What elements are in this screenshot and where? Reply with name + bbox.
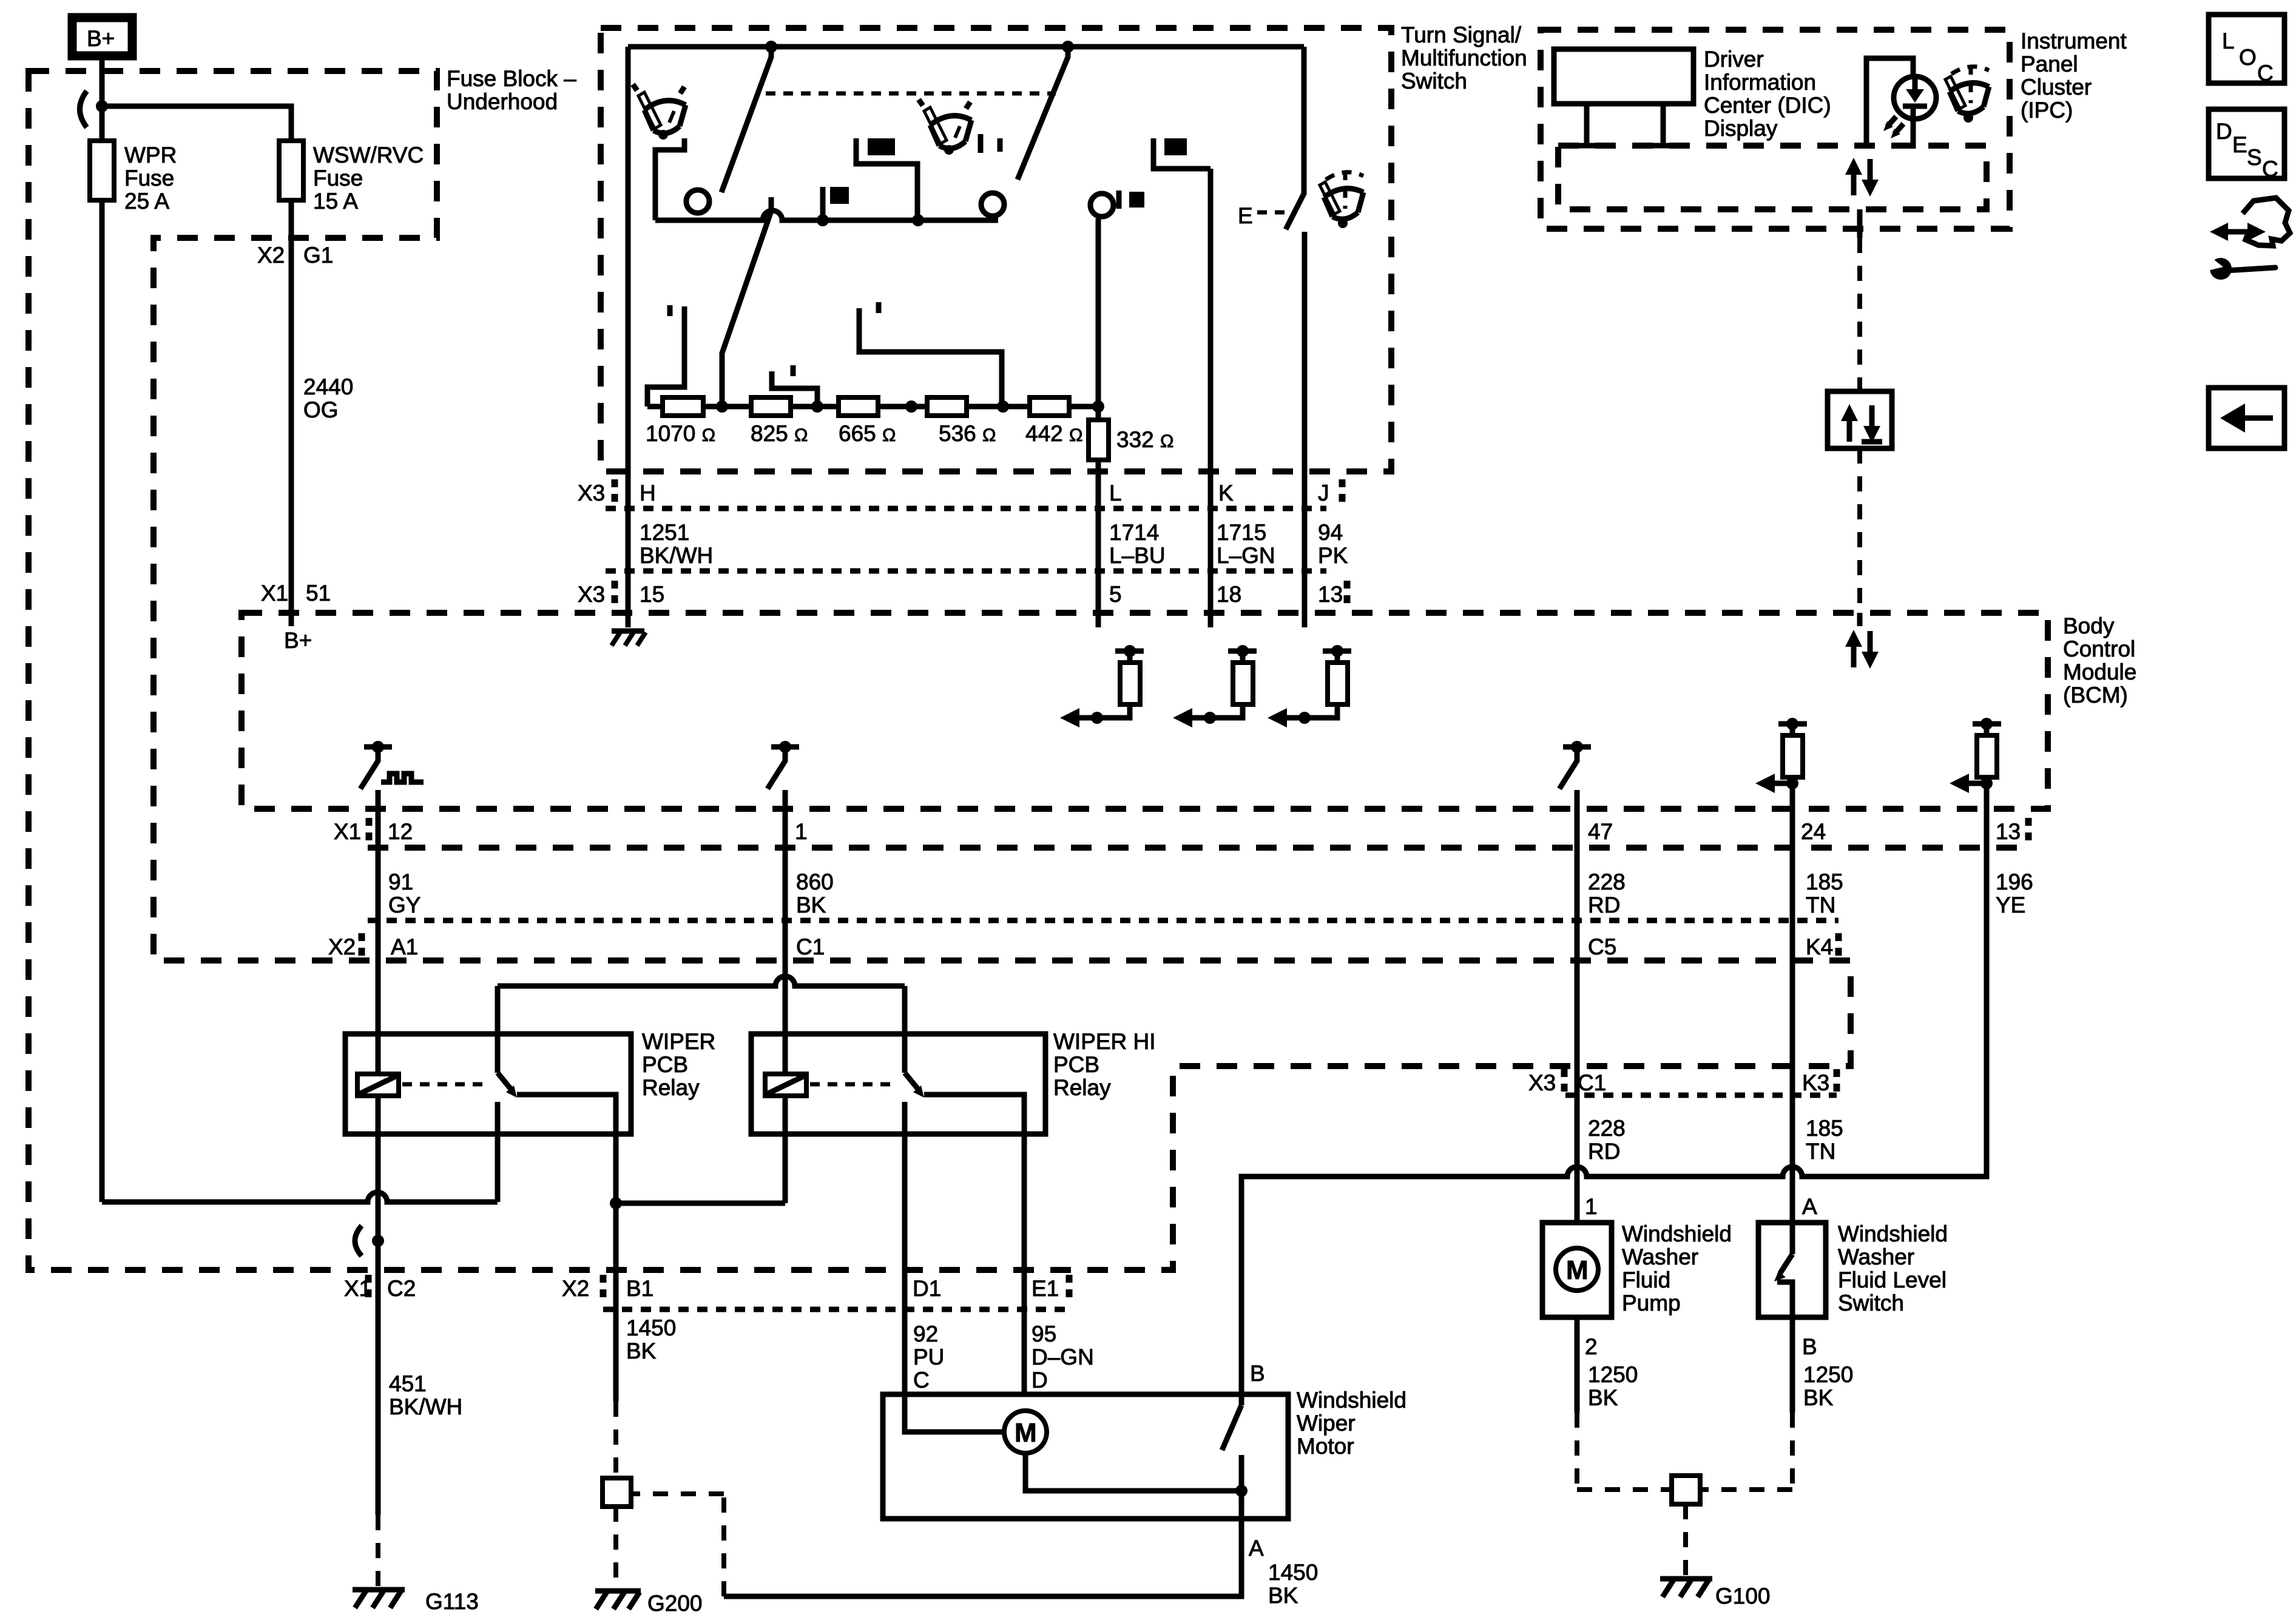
resistor 1070 ohm — [646, 397, 715, 446]
harness small dash line 2 — [606, 569, 1326, 574]
connector X1 pin number row of BCM — [334, 818, 2028, 846]
svg-text:M: M — [1015, 1418, 1037, 1448]
input pullup L pin 5 — [1060, 645, 1144, 727]
svg-text:Windshield: Windshield — [1838, 1221, 1948, 1246]
svg-text:Underhood: Underhood — [447, 89, 558, 114]
wire off position L lead — [655, 138, 684, 220]
input pullup pin 24 inline — [1755, 718, 1807, 793]
svg-text:J: J — [1318, 481, 1329, 505]
wire top feed rail of switch — [628, 44, 1304, 50]
wire label 196 YE — [1996, 869, 2033, 917]
svg-text:BK: BK — [1588, 1385, 1618, 1410]
svg-text:WIPER HI: WIPER HI — [1053, 1029, 1156, 1054]
svg-text:Multifunction: Multifunction — [1401, 46, 1527, 70]
wire wiper relay output to HI relay common — [498, 976, 905, 986]
svg-text:Body: Body — [2063, 613, 2115, 638]
svg-text:12: 12 — [388, 819, 413, 844]
wiper pcb relay label — [642, 1029, 715, 1100]
svg-text:Pump: Pump — [1622, 1291, 1681, 1315]
wire label 2440 OG — [303, 374, 353, 422]
wire label 95 D-GN D — [1032, 1322, 1094, 1393]
node chain junction dots — [716, 400, 1104, 413]
svg-text:G200: G200 — [647, 1591, 703, 1616]
svg-text:196: 196 — [1996, 869, 2033, 894]
svg-text:E: E — [2232, 132, 2247, 157]
svg-text:RD: RD — [1588, 893, 1620, 917]
svg-text:BK: BK — [1803, 1385, 1834, 1410]
svg-text:Relay: Relay — [642, 1075, 700, 1100]
svg-text:S: S — [2247, 145, 2262, 170]
svg-text:1: 1 — [795, 819, 808, 844]
windshield washer fluid level switch box — [1758, 1223, 1826, 1317]
svg-text:Windshield: Windshield — [1622, 1221, 1732, 1246]
svg-text:H: H — [640, 481, 656, 505]
svg-text:2: 2 — [1585, 1334, 1598, 1359]
svg-text:Relay: Relay — [1053, 1075, 1111, 1100]
wire B+ feed down to WPR fuse — [100, 60, 105, 1202]
resistor 665 ohm — [839, 397, 896, 446]
svg-text:BK: BK — [626, 1338, 657, 1363]
wire K output down — [1208, 169, 1214, 627]
contact tick chain left — [667, 305, 673, 316]
connector X3 pin number row — [578, 581, 1347, 609]
wire serial data IPC to BCM — [1857, 209, 1863, 613]
svg-text:1250: 1250 — [1803, 1362, 1853, 1387]
svg-text:K4: K4 — [1806, 934, 1833, 959]
svg-text:Turn Signal/: Turn Signal/ — [1401, 22, 1522, 47]
motor armature M — [1004, 1411, 1047, 1453]
margin icon back arrow box — [2209, 388, 2284, 448]
contact tick mid2 — [876, 302, 882, 313]
connector pins D1 E1 — [913, 1275, 1069, 1303]
input pullup J pin 13 — [1268, 645, 1351, 727]
wire low speed rail deck2 — [655, 211, 998, 220]
wire 860 BK from pin 1 down through HI relay coil — [783, 790, 788, 1203]
svg-text:X2: X2 — [328, 934, 356, 959]
svg-text:L: L — [1109, 481, 1122, 505]
svg-text:(BCM): (BCM) — [2063, 683, 2128, 707]
svg-text:Fluid Level: Fluid Level — [1838, 1268, 1947, 1292]
svg-text:B: B — [1802, 1334, 1817, 1359]
contact tick deck2 left — [978, 134, 984, 153]
wire label 92 PU C — [913, 1322, 944, 1393]
wire chain left end contact — [647, 306, 684, 407]
svg-text:332 Ω: 332 Ω — [1116, 427, 1173, 452]
DIC display rectangle — [1554, 49, 1693, 104]
windshield washer fluid pump box — [1542, 1223, 1612, 1317]
resistor chain rail — [647, 404, 1098, 410]
harness dashed line below BCM pin row — [368, 845, 2027, 851]
mechanical link dashed wiper relay — [402, 1082, 485, 1087]
svg-text:2440: 2440 — [303, 374, 353, 399]
node low rail junction 1 — [817, 214, 829, 226]
wire level switch to splice — [1700, 1317, 1792, 1490]
instrument panel cluster dashed box — [1541, 30, 2010, 229]
svg-text:C: C — [2257, 61, 2274, 86]
svg-text:15 A: 15 A — [313, 189, 358, 214]
margin icon arrows and wrench — [2203, 198, 2290, 280]
svg-text:Fuse: Fuse — [124, 166, 174, 191]
driver output pin 1 symbol — [768, 741, 799, 789]
wire label 1450 BK at motor — [1268, 1560, 1318, 1608]
svg-text:Driver: Driver — [1704, 47, 1764, 72]
svg-text:K3: K3 — [1802, 1070, 1829, 1095]
switch washer output — [1302, 232, 1308, 627]
svg-text:Washer: Washer — [1838, 1244, 1914, 1269]
serial data symbol box — [1828, 391, 1892, 448]
svg-text:1070 Ω: 1070 Ω — [646, 421, 715, 446]
wire 92 PU inside motor — [905, 1394, 1005, 1432]
svg-text:Information: Information — [1704, 70, 1816, 95]
park switch in motor — [1222, 1394, 1241, 1491]
mechanical link dashed hi relay — [810, 1082, 893, 1087]
svg-text:1450: 1450 — [626, 1315, 676, 1340]
svg-text:C5: C5 — [1588, 934, 1616, 959]
connector X2 pin row A1 C1 C5 K4 — [328, 933, 1838, 961]
wire 91 GY from pin 12 down through relay coil — [376, 790, 381, 1515]
svg-text:51: 51 — [306, 581, 331, 606]
svg-text:15: 15 — [640, 582, 664, 607]
fuse block underhood dashed outline — [29, 71, 1851, 1270]
wire DIC legs — [1576, 104, 1674, 147]
svg-text:D: D — [1032, 1368, 1048, 1393]
wire pump to splice — [1577, 1317, 1672, 1490]
svg-text:Control: Control — [2063, 636, 2135, 661]
IPC serial data arrows — [1845, 158, 1879, 197]
wire motor to park junction — [1025, 1453, 1241, 1491]
wire contact lead to junction 536-442 — [859, 308, 1002, 407]
windshield wiper motor box — [883, 1394, 1288, 1519]
svg-text:Panel: Panel — [2021, 52, 2078, 76]
contact square deck2 low — [823, 187, 849, 220]
svg-text:X2: X2 — [257, 243, 285, 268]
svg-text:Display: Display — [1704, 116, 1778, 141]
icon wiper symbol 2 — [919, 100, 971, 155]
svg-text:TN: TN — [1806, 1139, 1835, 1164]
svg-text:B: B — [1250, 1361, 1265, 1386]
svg-text:G100: G100 — [1715, 1584, 1771, 1609]
node rail junction B — [1062, 41, 1074, 53]
wire 451 dashed to ground G113 — [376, 1515, 380, 1587]
wire label 228 RD upper — [1588, 869, 1626, 917]
svg-text:665 Ω: 665 Ω — [839, 421, 896, 446]
resistor 536 ohm — [927, 397, 996, 446]
wire J washer feed with switch — [1286, 47, 1304, 229]
mechanical link dashed E to washer blade — [1257, 211, 1294, 215]
input pullup K pin 18 — [1173, 645, 1257, 727]
svg-text:C: C — [913, 1368, 930, 1393]
wire motor ground 1450 BK — [724, 1491, 1241, 1596]
svg-text:92: 92 — [913, 1322, 938, 1346]
wire junction to HI coil return — [616, 1201, 785, 1206]
node wiper relay output junction — [610, 1197, 622, 1209]
svg-text:X3: X3 — [578, 582, 605, 607]
wiper hi pcb relay box — [751, 1034, 1045, 1134]
svg-text:X2: X2 — [562, 1276, 589, 1301]
fuse block underhood label — [447, 66, 576, 114]
svg-text:D: D — [2216, 119, 2232, 144]
turn signal multifunction switch label — [1401, 22, 1527, 93]
svg-text:47: 47 — [1588, 819, 1613, 844]
node B+ junction — [96, 100, 108, 112]
svg-text:13: 13 — [1318, 582, 1343, 607]
svg-text:D–GN: D–GN — [1032, 1345, 1094, 1369]
svg-text:Module: Module — [2063, 660, 2136, 684]
wiper hi pcb relay label — [1053, 1029, 1156, 1100]
BCM serial data stub and arrows — [1845, 613, 1879, 669]
washer pump motor M — [1556, 1248, 1598, 1291]
ground G200 — [595, 1591, 703, 1616]
svg-text:L–GN: L–GN — [1217, 543, 1275, 568]
mechanical link dashed deck1-deck3 — [766, 92, 1056, 96]
contact circle deck1 off — [686, 190, 709, 213]
svg-text:442 Ω: 442 Ω — [1025, 421, 1082, 446]
svg-text:13: 13 — [1996, 819, 2021, 844]
splice clip arc at B+ junction — [80, 91, 87, 127]
wire label 1250 BK pump — [1588, 1362, 1638, 1410]
wire contact lead to junction 825-665 — [772, 371, 817, 407]
wire H wiper park feed down to ground — [626, 47, 631, 627]
svg-text:1: 1 — [1585, 1194, 1598, 1219]
svg-text:Fluid: Fluid — [1622, 1268, 1670, 1292]
svg-text:A: A — [1802, 1194, 1817, 1219]
svg-text:451: 451 — [389, 1371, 427, 1396]
fuse WPR 25A — [90, 141, 177, 214]
wire label 228 RD lower — [1588, 1116, 1626, 1164]
relay coil wiper hi — [765, 1074, 806, 1096]
svg-text:95: 95 — [1032, 1322, 1056, 1346]
svg-text:WSW/RVC: WSW/RVC — [313, 143, 424, 167]
svg-text:1250: 1250 — [1588, 1362, 1638, 1387]
svg-text:OG: OG — [303, 397, 339, 422]
svg-text:C: C — [2262, 157, 2278, 181]
wire splice to ground G100 — [1683, 1504, 1688, 1576]
svg-text:Switch: Switch — [1838, 1291, 1904, 1315]
svg-text:WPR: WPR — [124, 143, 177, 167]
svg-text:L: L — [2222, 29, 2235, 53]
svg-text:PCB: PCB — [1053, 1052, 1099, 1077]
turn signal multifunction switch dashed box — [601, 28, 1391, 471]
margin icon DESC box — [2209, 109, 2284, 181]
IPC internal serial dashed box — [1558, 146, 1987, 209]
node rail junction A — [765, 41, 777, 53]
body control module dashed box — [241, 613, 2048, 809]
svg-text:X3: X3 — [578, 481, 605, 505]
svg-text:RD: RD — [1588, 1139, 1620, 1164]
svg-text:Wiper: Wiper — [1297, 1411, 1356, 1436]
contact square delay feed — [856, 138, 917, 220]
svg-text:WIPER: WIPER — [642, 1029, 715, 1054]
telltale LED indicator — [1883, 76, 1936, 149]
windshield washer fluid pump label — [1622, 1221, 1732, 1315]
svg-text:Fuse Block –: Fuse Block – — [447, 66, 576, 91]
connector X1 pin C2 row — [344, 1275, 416, 1303]
svg-text:5: 5 — [1109, 582, 1122, 607]
svg-text:185: 185 — [1806, 1116, 1843, 1141]
body control module label — [2063, 613, 2136, 707]
wire label 91 GY — [388, 869, 420, 917]
svg-text:B+: B+ — [284, 628, 312, 653]
connector X2 pin B1 — [562, 1275, 653, 1303]
svg-text:C1: C1 — [1578, 1070, 1606, 1095]
svg-text:Windshield: Windshield — [1297, 1388, 1406, 1413]
svg-text:X1: X1 — [334, 819, 361, 844]
svg-text:E: E — [1238, 203, 1253, 228]
svg-text:X3: X3 — [1528, 1070, 1556, 1095]
icon wiper symbol 1 — [633, 84, 686, 140]
svg-text:C2: C2 — [387, 1276, 416, 1301]
svg-text:BK/WH: BK/WH — [640, 543, 713, 568]
svg-text:94: 94 — [1318, 520, 1343, 545]
svg-text:BK/WH: BK/WH — [389, 1394, 462, 1419]
svg-text:PCB: PCB — [642, 1052, 688, 1077]
svg-text:(IPC): (IPC) — [2021, 98, 2073, 123]
harness small dash line 3 — [368, 918, 1838, 923]
svg-text:A1: A1 — [391, 934, 418, 959]
relay switch wiper hi — [905, 986, 1024, 1394]
svg-text:Washer: Washer — [1622, 1244, 1698, 1269]
switch blade deck1 on/off — [721, 47, 771, 192]
relay switch wiper — [498, 986, 616, 1203]
driver output pin 12 symbol — [360, 741, 424, 789]
contact circle deck3 right L — [1090, 194, 1113, 217]
splice with clip on 91 GY wire — [355, 1226, 384, 1256]
connector X1 pin 51 of BCM — [261, 581, 331, 606]
input pullup pin 13 inline — [1950, 718, 2001, 793]
svg-text:Motor: Motor — [1297, 1434, 1354, 1459]
contact tick deck3 — [998, 138, 1003, 152]
svg-text:G113: G113 — [425, 1589, 479, 1614]
svg-text:K: K — [1218, 481, 1234, 505]
svg-text:825 Ω: 825 Ω — [751, 421, 808, 446]
svg-text:Center (DIC): Center (DIC) — [1704, 93, 1831, 118]
harness small dash line 1 — [606, 506, 1326, 511]
windshield wiper motor label — [1297, 1388, 1406, 1459]
svg-text:1715: 1715 — [1217, 520, 1266, 545]
svg-text:O: O — [2239, 45, 2257, 70]
switch blade deck3 speed select — [1018, 47, 1068, 180]
wire L output from low rail through resistors — [1096, 218, 1101, 627]
wire label 1714 L-BU — [1109, 520, 1166, 568]
svg-text:D1: D1 — [913, 1276, 941, 1301]
windshield washer fluid level switch label — [1838, 1221, 1948, 1315]
relay coil wiper — [357, 1074, 399, 1096]
svg-text:PU: PU — [913, 1345, 944, 1369]
telltale LED feed wires — [1866, 58, 1913, 149]
svg-text:18: 18 — [1217, 582, 1241, 607]
level switch contacts — [1774, 1221, 1792, 1317]
svg-text:B1: B1 — [626, 1276, 653, 1301]
svg-text:Switch: Switch — [1401, 69, 1467, 93]
wire label 185 TN upper — [1806, 869, 1843, 917]
resistor 332 ohm — [1089, 420, 1173, 460]
svg-text:BK: BK — [1268, 1583, 1298, 1608]
svg-text:185: 185 — [1806, 869, 1843, 894]
wire splice to ground G200 — [613, 1507, 618, 1590]
wire label 860 BK — [796, 869, 834, 917]
svg-text:1714: 1714 — [1109, 520, 1159, 545]
harness small dash line 5 — [603, 1307, 1071, 1312]
switch blade deck2 intermittent — [722, 197, 771, 407]
svg-text:A: A — [1249, 1536, 1264, 1561]
icon washer symbol in IPC — [1945, 65, 1989, 123]
splice block S100 — [1672, 1476, 1700, 1504]
wire 185 TN from pin 24 down to level switch — [1790, 783, 1795, 1221]
contact square mist with tick — [1119, 191, 1144, 209]
harness small dash line 4 — [1565, 1093, 1837, 1098]
svg-text:G1: G1 — [303, 243, 333, 268]
wire label 1250 BK level switch — [1803, 1362, 1853, 1410]
wire junction down to ground splice — [613, 1203, 619, 1402]
wire label 1251 BK/WH — [640, 520, 713, 568]
resistor 442 ohm — [1025, 397, 1082, 446]
svg-text:1251: 1251 — [640, 520, 689, 545]
driver output pin 47 symbol — [1559, 741, 1591, 789]
margin icon LOC box — [2209, 15, 2284, 86]
wire label 1715 L-GN — [1217, 520, 1275, 568]
svg-text:228: 228 — [1588, 1116, 1626, 1141]
contact square K high feed — [1153, 138, 1210, 169]
wire B1 dashed to splice — [613, 1402, 618, 1478]
ground G100 — [1660, 1579, 1771, 1609]
resistor 825 ohm — [751, 397, 808, 446]
wire label 1450 BK at B1 — [626, 1315, 676, 1363]
svg-text:Cluster: Cluster — [2021, 75, 2092, 100]
wire label 94 PK — [1318, 520, 1348, 568]
node low rail junction 2 — [912, 214, 924, 226]
fuse WSW/RVC 15A — [279, 141, 424, 214]
svg-text:TN: TN — [1806, 893, 1835, 917]
svg-text:Fuse: Fuse — [313, 166, 363, 191]
svg-text:1450: 1450 — [1268, 1560, 1318, 1585]
svg-text:L–BU: L–BU — [1109, 543, 1166, 568]
wire dashed link to G200 splice — [633, 1494, 724, 1596]
svg-text:860: 860 — [796, 869, 834, 894]
connector X3 pin row C1 K3 — [1528, 1069, 1837, 1097]
node park junction — [1235, 1485, 1248, 1497]
B+ battery terminal box — [72, 18, 132, 56]
wiper pcb relay box — [345, 1034, 631, 1134]
instrument panel cluster label — [2021, 29, 2127, 123]
svg-text:25 A: 25 A — [124, 189, 169, 214]
svg-text:E1: E1 — [1032, 1276, 1059, 1301]
svg-text:Instrument: Instrument — [2021, 29, 2127, 53]
svg-text:228: 228 — [1588, 869, 1626, 894]
wire label 185 TN lower — [1806, 1116, 1843, 1164]
contact circle deck3 left — [981, 193, 1004, 216]
splice block S200 — [603, 1478, 631, 1507]
svg-text:C1: C1 — [796, 934, 825, 959]
connector X2 pin G1 of fuse block — [257, 243, 333, 268]
svg-text:536 Ω: 536 Ω — [939, 421, 996, 446]
wire 196 YE from pin 13 to wiper motor park switch — [1241, 783, 1987, 1394]
svg-text:BK: BK — [796, 893, 826, 917]
wire 228 RD from pin 47 down to washer pump — [1575, 790, 1580, 1221]
connector X3 pin letter row — [578, 479, 1342, 507]
svg-text:B+: B+ — [87, 26, 115, 51]
icon washer symbol in switch — [1320, 170, 1363, 228]
ground symbol at BCM pin 15 — [612, 631, 646, 646]
svg-text:PK: PK — [1318, 543, 1348, 568]
svg-text:GY: GY — [388, 893, 420, 917]
wire label 451 BK/WH — [389, 1371, 462, 1419]
svg-text:M: M — [1566, 1255, 1589, 1285]
svg-text:24: 24 — [1801, 819, 1826, 844]
svg-text:X1: X1 — [261, 581, 288, 606]
contact tick mid1 — [791, 365, 796, 376]
wire B+ branch to WSW/RVC fuse — [102, 106, 291, 626]
svg-text:91: 91 — [388, 869, 413, 894]
